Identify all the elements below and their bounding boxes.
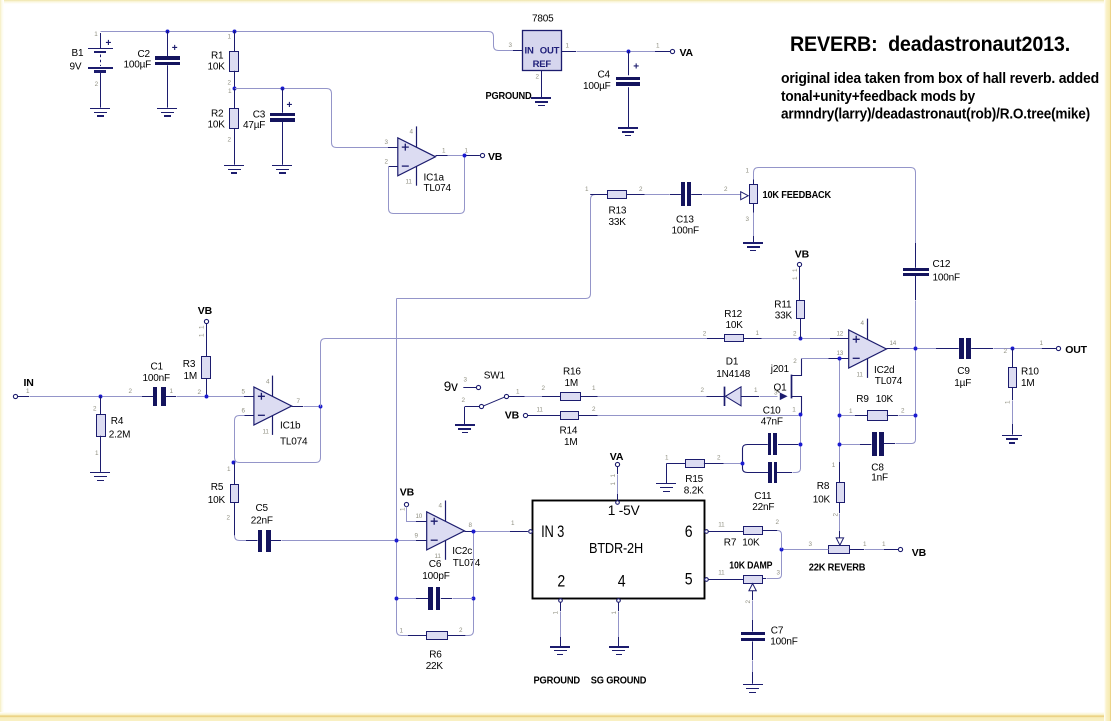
- label SW1: [484, 371, 506, 382]
- pin 3 IC1a: [385, 139, 389, 146]
- pin 3 pot reverb: [809, 541, 813, 548]
- label C13: [672, 214, 699, 236]
- wire to IC1b pin5: [209, 396, 254, 398]
- wire VA to BTDR pin1: [617, 466, 619, 500]
- wire C5 to IC2c node: [282, 540, 395, 542]
- wire pot reverb to VB: [865, 549, 899, 551]
- capacitor C9: [959, 338, 1011, 359]
- wire C8 left stub: [842, 444, 872, 446]
- label j201: [770, 364, 790, 375]
- pin 1 R10 rot: [1005, 400, 1012, 404]
- svg-text:IC2d: IC2d: [874, 365, 894, 376]
- pin 1 pot feedback: [746, 168, 750, 175]
- pin 2 R16: [542, 385, 546, 392]
- label R7: [724, 537, 760, 548]
- svg-text:REF: REF: [533, 59, 552, 70]
- svg-text:1N4148: 1N4148: [716, 369, 750, 380]
- ground under C2: [157, 108, 177, 117]
- svg-text:R10: R10: [1021, 366, 1039, 377]
- pin 1 C1: [170, 388, 174, 395]
- junction C8 left: [838, 443, 842, 447]
- subtitle line 3: [781, 107, 1090, 123]
- label R8: [813, 481, 831, 505]
- svg-text:5: 5: [685, 569, 693, 588]
- wire IC1b feedback loop: [235, 407, 321, 463]
- pin 2 R11j: [793, 330, 797, 337]
- label D1: [716, 357, 750, 381]
- pin 3 pot feedback: [746, 216, 750, 223]
- svg-text:1M: 1M: [564, 437, 578, 448]
- pin 1 VA stub: [656, 43, 660, 50]
- junction R5 tap: [232, 461, 236, 465]
- junction R9 right rail: [914, 414, 918, 418]
- pin 9 IC2c: [415, 532, 419, 539]
- resistor R15: [666, 460, 740, 468]
- label R2: [208, 109, 226, 131]
- svg-text:4: 4: [618, 571, 626, 590]
- wire bus to R6 right: [466, 601, 474, 636]
- terminal VA: [670, 49, 674, 53]
- svg-text:100µF: 100µF: [583, 81, 611, 92]
- svg-text:100nF: 100nF: [672, 226, 699, 237]
- label C10: [761, 405, 783, 427]
- svg-text:100µF: 100µF: [124, 60, 152, 71]
- pin 2 C1: [129, 388, 133, 395]
- terminal VB above R11: [797, 262, 801, 266]
- svg-text:tonal+unity+feedback mods by: tonal+unity+feedback mods by: [781, 89, 975, 105]
- switch SW1: [463, 385, 508, 424]
- op-amp IC1a: [398, 126, 436, 185]
- svg-text:IC1b: IC1b: [280, 421, 301, 432]
- pin 7 IC1b: [297, 398, 301, 405]
- label IC1a: [424, 173, 452, 195]
- ground under C7: [743, 684, 763, 693]
- label R3: [183, 359, 197, 382]
- svg-text:C9: C9: [957, 366, 970, 377]
- junction C9/R10/OUT: [1011, 347, 1015, 351]
- pin 14 IC2d: [890, 340, 897, 347]
- svg-text:VA: VA: [680, 47, 694, 59]
- junction at R1 top: [233, 30, 237, 34]
- wire SW1 to R16: [509, 396, 543, 398]
- ground under R10: [1002, 435, 1022, 444]
- pin 1 BTDR2 rot: [553, 611, 560, 615]
- svg-text:R12: R12: [724, 309, 742, 320]
- pin 11 R14: [537, 407, 544, 414]
- label C1: [143, 362, 170, 385]
- label VB at IC1a: [488, 151, 503, 163]
- pin 2 Q1: [793, 358, 797, 365]
- pin 1 R12: [756, 330, 760, 337]
- svg-text:14: 14: [890, 340, 897, 347]
- label R5: [208, 482, 226, 506]
- pin 10 IC2c: [416, 513, 423, 520]
- resistor R4: [97, 396, 106, 472]
- label C4: [583, 69, 611, 92]
- pin 2 R4: [93, 406, 97, 413]
- subtitle line 2: [781, 89, 975, 105]
- svg-text:R8: R8: [817, 481, 830, 492]
- resistor R11: [797, 266, 805, 338]
- wire IC1a feedback loop: [389, 156, 465, 214]
- label PGROUND: [486, 90, 533, 102]
- label VB above R11: [795, 248, 810, 260]
- wire C13 to feedback pot wiper: [703, 194, 741, 196]
- svg-text:+: +: [287, 100, 293, 111]
- svg-text:6: 6: [685, 522, 693, 541]
- svg-text:IN: IN: [525, 46, 534, 57]
- svg-text:11: 11: [263, 428, 270, 435]
- wire regulator OUT to VA: [561, 51, 671, 53]
- wire bus to C6 node: [396, 543, 398, 597]
- pin 1 VA rot: [610, 474, 617, 486]
- pin 1 R15: [665, 454, 669, 461]
- pin 2 R6: [459, 627, 463, 634]
- svg-text:original idea taken from box o: original idea taken from box of hall rev…: [781, 71, 1099, 87]
- junction R15 tap: [741, 462, 745, 466]
- wire Q1 drain to IC2d minus: [802, 358, 849, 360]
- label 9v: [444, 379, 458, 394]
- label 10K DAMP: [729, 560, 772, 572]
- svg-text:11: 11: [857, 371, 864, 378]
- svg-text:7805: 7805: [532, 14, 554, 25]
- pin 4 IC2d: [861, 320, 865, 327]
- svg-text:VB: VB: [795, 248, 810, 260]
- wire R12 to junction: [762, 338, 799, 340]
- ground under B1: [90, 108, 110, 117]
- svg-text:D1: D1: [726, 357, 739, 368]
- svg-text:C11: C11: [754, 491, 772, 502]
- pin circle BTDR IN: [529, 530, 533, 534]
- svg-text:10K: 10K: [742, 537, 760, 548]
- pin circle BTDR 2: [559, 599, 563, 603]
- svg-text:+: +: [633, 62, 639, 73]
- pin 1 R11 rot: [792, 268, 799, 280]
- svg-text:R6: R6: [429, 649, 442, 660]
- wire C10/C11 right link: [793, 447, 801, 473]
- label C3: [243, 110, 266, 132]
- junction C1/R3/IC1b+: [205, 395, 209, 399]
- label R12: [724, 309, 743, 331]
- svg-text:1M: 1M: [184, 371, 198, 382]
- svg-text:R13: R13: [609, 205, 627, 216]
- wire regulator REF to ground: [541, 70, 543, 97]
- svg-text:IC2c: IC2c: [452, 546, 472, 557]
- svg-text:PGROUND: PGROUND: [486, 90, 533, 102]
- wire IC2c out bus down: [473, 534, 475, 597]
- ground under C3: [272, 165, 292, 174]
- svg-text:9v: 9v: [444, 379, 458, 394]
- wire R14 to C10 node: [598, 415, 799, 417]
- svg-text:TL074: TL074: [875, 376, 903, 387]
- pin circle BTDR -5V: [616, 501, 620, 505]
- ground under SW1: [455, 424, 475, 433]
- label R4: [109, 416, 130, 441]
- label R15: [684, 474, 704, 497]
- svg-text:10K DAMP: 10K DAMP: [729, 560, 772, 572]
- junction at C2 top: [166, 30, 170, 34]
- label R1: [208, 51, 226, 73]
- pin 11 R7: [718, 522, 725, 529]
- junction IC1b output: [319, 405, 323, 409]
- label OUT: [1065, 344, 1087, 356]
- pin 1 R3 rot: [199, 325, 206, 337]
- svg-text:R5: R5: [211, 482, 224, 493]
- svg-text:C12: C12: [933, 259, 951, 270]
- wire R16 to D1: [598, 396, 707, 398]
- wire IC1b output: [292, 406, 319, 408]
- resistor R12: [707, 335, 762, 342]
- IC BTDR-2H module: [533, 501, 705, 599]
- wire rail IC2d out to R9: [915, 351, 917, 414]
- pin 1 R16: [592, 385, 596, 392]
- terminal IN: [13, 394, 17, 398]
- pin 2 C7 rot: [745, 600, 752, 604]
- junction IN/R4/C1: [99, 395, 103, 399]
- svg-text:VA: VA: [610, 451, 624, 463]
- wire BTDR pin4 to ground: [618, 602, 620, 646]
- ground under C4: [618, 127, 638, 136]
- wire junction to OUT: [1015, 348, 1056, 350]
- pin 11 IC1a: [406, 179, 413, 186]
- junction C10 bottom right: [799, 443, 803, 447]
- wire pot feedback bottom to ground: [753, 213, 755, 243]
- wire R9 left stub: [842, 415, 868, 417]
- wire to IC2c pin9: [399, 540, 427, 542]
- label PGROUND bottom: [534, 675, 581, 687]
- label SG GROUND: [591, 675, 647, 687]
- terminal VB above R3: [204, 319, 208, 323]
- pin 2 R12: [703, 330, 707, 337]
- pin 11 IC1b: [263, 428, 270, 435]
- wire IC2d output: [886, 348, 913, 350]
- svg-text:33K: 33K: [775, 310, 793, 321]
- capacitor C4: [616, 51, 640, 127]
- wire to IC2d pin12: [803, 338, 849, 340]
- label R16: [563, 367, 581, 390]
- resistor R10: [1009, 349, 1017, 435]
- regulator U-7805: [513, 31, 562, 71]
- pin 2 D1: [701, 387, 705, 394]
- pin 3 Q1: [774, 390, 778, 397]
- svg-text:+: +: [172, 43, 178, 54]
- junction C10 top: [799, 413, 803, 417]
- label C11: [752, 491, 774, 513]
- svg-text:R11: R11: [774, 299, 792, 310]
- wire IC1a pin3 stub: [388, 147, 398, 149]
- svg-text:VB: VB: [505, 410, 520, 422]
- svg-text:47nF: 47nF: [761, 416, 783, 427]
- svg-text:10K: 10K: [813, 494, 831, 505]
- wire pot feedback top to right rail: [754, 168, 916, 244]
- pin 1 B1: [94, 31, 98, 38]
- label B1: [70, 48, 84, 73]
- pin 4 IC1a: [410, 129, 414, 136]
- svg-text:12: 12: [837, 330, 844, 337]
- junction at C3 top: [281, 87, 285, 91]
- wire D1 to Q1 gate: [760, 396, 778, 398]
- pin 1 OUT: [1040, 340, 1044, 347]
- svg-text:2: 2: [557, 571, 565, 590]
- label C6: [422, 559, 449, 582]
- pin 1 regulator: [566, 43, 570, 50]
- svg-text:100pF: 100pF: [422, 571, 449, 582]
- pin 1 IN: [26, 388, 30, 395]
- pin 2 R3: [198, 389, 202, 396]
- label Q1: [774, 382, 788, 393]
- capacitor C11: [743, 462, 793, 483]
- wire IN to R4 node: [17, 396, 98, 398]
- wire R8 to 22K pot: [839, 502, 841, 538]
- svg-text:10K FEEDBACK: 10K FEEDBACK: [763, 189, 832, 201]
- svg-text:100nF: 100nF: [770, 636, 797, 647]
- svg-text:9V: 9V: [70, 62, 82, 73]
- resistor R1: [230, 31, 239, 88]
- label VB at IC2c: [400, 486, 415, 498]
- svg-text:TL074: TL074: [280, 436, 308, 447]
- svg-text:11: 11: [537, 407, 544, 414]
- svg-text:OUT: OUT: [540, 46, 560, 57]
- svg-text:C1: C1: [151, 362, 164, 373]
- label R11: [774, 299, 792, 321]
- label VA above BTDR: [610, 451, 624, 463]
- capacitor C6: [399, 587, 473, 610]
- pin 11 IC2c: [435, 553, 442, 560]
- svg-text:10K: 10K: [208, 62, 226, 73]
- ground under BTDR pin2: [550, 646, 570, 655]
- wire R13 to C13: [645, 194, 670, 196]
- pin 12 IC2d: [837, 330, 844, 337]
- op-amp IC2c: [427, 501, 465, 560]
- frame left band: [0, 0, 4, 721]
- resistor R8: [837, 483, 845, 503]
- svg-text:8.2K: 8.2K: [684, 486, 704, 497]
- resistor R16: [542, 393, 598, 401]
- pin 1 BTDR4 rot: [611, 611, 618, 615]
- svg-text:C13: C13: [676, 214, 694, 225]
- pin 2 R9: [901, 407, 905, 414]
- pin 2 R7: [776, 519, 780, 526]
- subtitle line 1: [781, 71, 1099, 87]
- svg-text:22nF: 22nF: [752, 502, 774, 513]
- ground under BTDR pin4: [609, 646, 629, 655]
- pin 2 R10: [1004, 348, 1008, 355]
- pin 11 IC2d: [857, 371, 864, 378]
- pin 5 IC1b: [242, 388, 246, 395]
- svg-text:47µF: 47µF: [243, 120, 265, 131]
- label R14: [560, 425, 578, 448]
- svg-text:11: 11: [406, 179, 413, 186]
- pin 2 IC1a: [385, 159, 389, 166]
- op-amp IC2d: [849, 319, 887, 378]
- label IC2d: [874, 365, 903, 387]
- wire R5 to C5: [235, 536, 247, 541]
- svg-text:C5: C5: [256, 503, 269, 514]
- wire left bus vertical: [396, 299, 398, 539]
- label C2: [124, 49, 152, 71]
- svg-text:VB: VB: [198, 305, 213, 317]
- resistor R6: [408, 632, 465, 640]
- pin circle BTDR 5: [705, 578, 709, 582]
- pin 1 R1: [228, 34, 232, 41]
- pin 2 R1: [228, 80, 232, 87]
- svg-text:1µF: 1µF: [954, 378, 971, 389]
- pin 1 VB reverb: [882, 541, 886, 548]
- terminal VB at IC1a: [480, 153, 484, 157]
- svg-text:VB: VB: [912, 547, 927, 559]
- potentiometer 10K FEEDBACK: [741, 177, 758, 214]
- wire pot reverb to junction: [784, 549, 829, 550]
- svg-text:C3: C3: [253, 110, 266, 121]
- svg-text:C7: C7: [771, 625, 784, 636]
- svg-text:R16: R16: [563, 367, 581, 378]
- pin circle BTDR 4: [617, 599, 621, 603]
- svg-text:IC1a: IC1a: [424, 173, 445, 184]
- pin 3 SW1: [464, 377, 468, 384]
- title REVERB: [790, 33, 1070, 56]
- wire right rail C12 to IC2d output: [915, 301, 917, 347]
- svg-text:10K: 10K: [876, 394, 894, 405]
- label VB at reverb pot: [912, 547, 927, 559]
- capacitor C2: [155, 31, 180, 108]
- svg-text:C10: C10: [763, 405, 781, 416]
- svg-text:TL074: TL074: [424, 183, 452, 194]
- capacitor C13: [670, 182, 702, 206]
- wire bus R9 to C8: [839, 418, 841, 443]
- wire rail to C9: [918, 348, 959, 350]
- resistor R5: [231, 463, 239, 536]
- wire C10 right bus: [800, 417, 802, 443]
- label VB at R14: [505, 410, 520, 422]
- svg-text:22nF: 22nF: [251, 515, 273, 526]
- junction IC2d minus bus: [838, 357, 842, 361]
- label C12: [933, 259, 960, 284]
- pin 2 regulator: [536, 74, 540, 81]
- pin 2 R2: [228, 136, 232, 143]
- frame top band: [0, 0, 1111, 4]
- label R10: [1021, 366, 1039, 389]
- svg-text:IN: IN: [24, 377, 34, 389]
- svg-text:100nF: 100nF: [933, 272, 960, 283]
- ground under feedback pot: [743, 242, 763, 251]
- svg-text:100nF: 100nF: [143, 373, 170, 384]
- label R13: [609, 205, 627, 228]
- ground under R15: [656, 483, 676, 492]
- pin 1 R5: [227, 466, 231, 473]
- svg-text:22K: 22K: [426, 661, 444, 672]
- wire R7 corner: [762, 531, 781, 549]
- svg-text:13: 13: [837, 350, 844, 357]
- resistor R13: [590, 191, 645, 199]
- svg-text:VB: VB: [488, 151, 503, 163]
- svg-text:TL074: TL074: [453, 558, 481, 569]
- terminal VA above BTDR: [615, 462, 619, 466]
- junction pots/R7: [780, 548, 784, 552]
- svg-text:2.2M: 2.2M: [109, 430, 130, 441]
- svg-text:BTDR-2H: BTDR-2H: [589, 540, 643, 557]
- pin 2 R14: [592, 406, 596, 413]
- pin 4 IC1b: [266, 378, 270, 385]
- label IC2c: [452, 546, 480, 569]
- svg-text:R14: R14: [560, 425, 578, 436]
- pin 2 C13: [724, 186, 728, 193]
- resistor R2: [230, 88, 239, 164]
- wire IC2c output: [464, 531, 528, 533]
- svg-text:10K: 10K: [726, 320, 744, 331]
- pin 1 R9: [849, 408, 853, 415]
- pin 13 IC2d: [837, 350, 844, 357]
- resistor R7: [708, 527, 762, 535]
